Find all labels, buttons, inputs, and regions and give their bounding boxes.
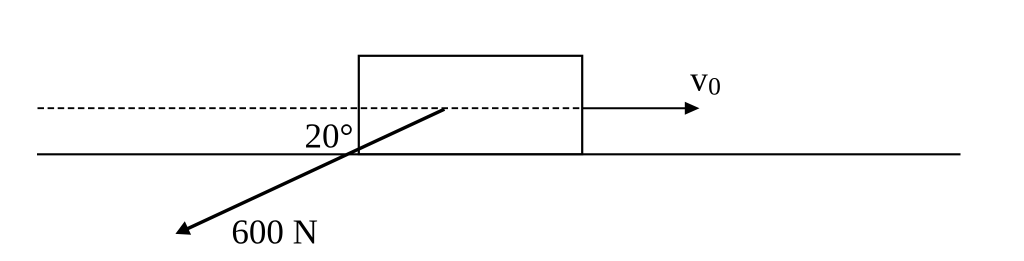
svg-text:v: v	[690, 59, 708, 98]
ground line	[37, 153, 961, 155]
dashed center line	[38, 107, 583, 109]
wire: v0 arrow shaft	[583, 107, 687, 109]
svg-text:20°: 20°	[305, 117, 354, 156]
svg-text:600 N: 600 N	[231, 212, 318, 251]
v0 arrowhead	[685, 102, 700, 115]
svg-text:0: 0	[708, 71, 721, 100]
force arrowhead	[175, 221, 191, 235]
block (rectangle)	[359, 56, 582, 155]
force arrow shaft (600 N)	[187, 109, 445, 229]
